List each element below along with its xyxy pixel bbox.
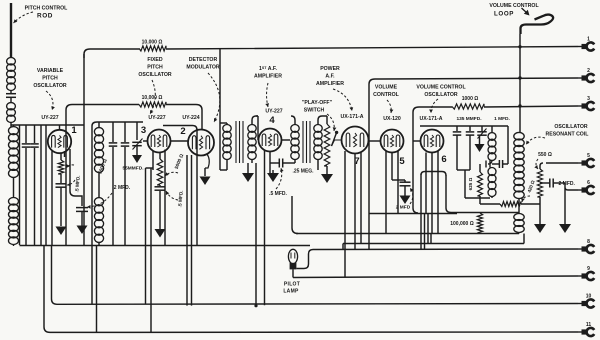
wire 420 to ground (539, 197, 541, 225)
pointer .5mfd tube4 (276, 168, 282, 189)
pointer to loop (522, 8, 528, 13)
pointer 2mfd tube5 (410, 188, 413, 204)
svg-text:4: 4 (269, 115, 275, 126)
fixed osc box top (92, 122, 143, 128)
wire terminal10 line (52, 246, 579, 305)
wire tank coil link (13, 177, 15, 198)
wire bus y243 right (343, 243, 524, 245)
svg-text:UY-227: UY-227 (265, 109, 282, 115)
variable capacitor 55mmf (132, 141, 142, 143)
svg-text:UX-171-A: UX-171-A (419, 116, 442, 122)
svg-text:UY-227: UY-227 (41, 115, 58, 121)
wire tube4 cathode down (269, 160, 271, 174)
wire 100000 box bottom (296, 233, 519, 235)
junction dot line2 (518, 76, 521, 79)
wire left feed vertical x66 (65, 110, 67, 245)
svg-text:RESONANT COIL: RESONANT COIL (546, 132, 590, 138)
resistor 420 link zigzag (500, 202, 521, 207)
wire column x41 (40, 125, 42, 245)
wire horizontal y171 (421, 172, 446, 176)
resistor 100000 ohm (477, 213, 482, 233)
oscillator tank coil upper (9, 127, 19, 135)
ground arrow below tube2 (200, 177, 211, 186)
svg-text:PITCH: PITCH (147, 65, 163, 71)
svg-text:UX-171-A: UX-171-A (340, 114, 363, 120)
wire down from tube7 region (292, 196, 298, 234)
wire plate feed line 2 (66, 105, 202, 131)
wire pilot to line8 (297, 250, 314, 269)
pointer power af (333, 89, 352, 111)
capacitor 2 MFD left (81, 205, 83, 206)
svg-text:2: 2 (180, 126, 185, 137)
capacitor grid a (22, 143, 31, 145)
wire vco top bus (420, 125, 508, 127)
wire loop feed vertical (519, 34, 521, 133)
svg-text:ROD: ROD (37, 13, 53, 20)
capacitor grid b (30, 143, 39, 145)
wire vco area (507, 126, 509, 164)
svg-text:POWER: POWER (320, 66, 340, 72)
antenna series capacitor (10, 90, 12, 93)
wire pot wiper to tube7 (332, 140, 342, 146)
tube V5 volume control (381, 130, 404, 153)
svg-text:1: 1 (71, 125, 77, 136)
svg-text:MODULATOR: MODULATOR (186, 65, 219, 71)
ground arrow right a (534, 224, 546, 233)
pointer to variable pitch oscillator tube (46, 91, 53, 110)
svg-text:AMPLIFIER: AMPLIFIER (316, 81, 344, 87)
wire grid cap column a (25, 125, 27, 143)
svg-text:1000 Ω: 1000 Ω (462, 96, 479, 102)
wire column x46 (45, 125, 47, 245)
oscillator resonant coil main (514, 132, 524, 140)
svg-text:OSCILLATOR: OSCILLATOR (138, 72, 171, 78)
svg-text:2 MFD: 2 MFD (396, 205, 411, 211)
svg-text:1 MFD.: 1 MFD. (494, 116, 510, 122)
svg-text:UY-227: UY-227 (148, 115, 165, 121)
pointer fixed pitch osc (150, 80, 155, 114)
pointer 2mfd left (87, 193, 112, 207)
svg-text:VOLUME CONTROL: VOLUME CONTROL (416, 85, 466, 91)
wire tube4 leads (264, 150, 266, 305)
wire fpo varcap column (136, 122, 138, 140)
pointer detector modulator (208, 73, 220, 122)
wire left osc top bus (11, 124, 84, 126)
svg-text:10,000 Ω: 10,000 Ω (142, 40, 163, 46)
svg-text:"PLAY-OFF": "PLAY-OFF" (302, 100, 333, 106)
wire tube6 leads (425, 153, 427, 214)
ground arrow left block (56, 227, 67, 236)
svg-text:.5 MFD.: .5 MFD. (269, 191, 287, 197)
capacitor cathode tube3 (159, 185, 161, 186)
wire resonant coil bottoms (518, 198, 520, 214)
wire tube1 plate lead (70, 149, 82, 205)
svg-text:.25 MEG.: .25 MEG. (292, 169, 314, 175)
resistor 10000 ohm (plate feed 1) (139, 46, 166, 51)
wire left feed vertical x84 (83, 54, 85, 245)
wire tube4 grid (256, 115, 258, 117)
svg-text:UX-120: UX-120 (383, 116, 401, 122)
switch blade (332, 132, 338, 147)
wire tube6 grid stub (413, 140, 421, 142)
ground arrow mid (159, 191, 161, 230)
wire line2 to terminal 2 (369, 78, 578, 249)
pointer 1st af (267, 83, 268, 107)
svg-text:PITCH: PITCH (42, 76, 58, 82)
resistor 625 ohm (478, 172, 483, 196)
pilot lamp bulb (288, 249, 297, 263)
wire output sec top to switch (326, 116, 328, 124)
resistor 420 ohm vertical (537, 169, 542, 197)
volume control loop antenna (521, 15, 554, 34)
wire top bus to terminal 1 (84, 47, 578, 59)
vco series caps (486, 160, 492, 168)
output transformer secondary (314, 124, 322, 132)
junction dot line1 (518, 45, 521, 48)
ground arrow below tube4 (267, 173, 279, 182)
wire pilot bottom tap (292, 269, 294, 277)
svg-text:55MMFD.: 55MMFD. (122, 166, 143, 172)
ground arrow below 2mfd (81, 222, 83, 227)
fixed osc coil (94, 128, 103, 136)
pointer volume control (387, 100, 391, 113)
svg-text:550 Ω: 550 Ω (538, 152, 552, 158)
capacitor 2mfd tube5 (400, 181, 411, 183)
ground arrow below varcap2 (479, 136, 481, 145)
capacitor fpo b (121, 142, 130, 144)
svg-text:3: 3 (141, 125, 146, 136)
svg-text:CONTROL: CONTROL (373, 92, 399, 98)
wire tube5 leads (385, 152, 387, 234)
interstage transformer secondary (248, 124, 256, 132)
fixed osc lower coil (94, 198, 103, 206)
capacitor fpo a (109, 142, 118, 144)
pointer 5000 t1 (66, 165, 74, 168)
capacitor .5mfd tube4 (278, 159, 280, 168)
svg-text:AMPLIFIER: AMPLIFIER (254, 74, 282, 80)
svg-text:VARIABLE: VARIABLE (37, 68, 64, 74)
junction dot line3 (518, 104, 521, 107)
wire bus y213 right (369, 213, 457, 215)
wire tube2 grid left (171, 140, 188, 142)
pointer to pitch rod (14, 12, 34, 23)
svg-text:A.F.: A.F. (325, 74, 335, 80)
wire transformer2 connections (291, 116, 327, 170)
svg-text:100,000 Ω: 100,000 Ω (450, 221, 473, 227)
pointer 5000 t3 (165, 172, 178, 176)
oscillator tank coil lower (9, 198, 19, 206)
wire fpo column 1 (91, 128, 93, 304)
pointer 550 ohm (536, 159, 538, 169)
svg-text:OSCILLATOR: OSCILLATOR (424, 92, 457, 98)
wire tube5 cathode to cap (392, 179, 405, 181)
wire tube5 grid stub (369, 140, 381, 142)
capacitor 135mmfd b (469, 126, 471, 131)
wire verticals right block (420, 174, 422, 250)
wire transformer1 top (226, 123, 228, 125)
pointer vco (431, 99, 438, 113)
svg-text:625 Ω: 625 Ω (468, 177, 473, 190)
wire terminal6 (565, 183, 578, 225)
svg-text:2 MFD.: 2 MFD. (559, 181, 576, 187)
wire tube7 leads (344, 151, 346, 277)
pointer .5mfd t1 (67, 180, 75, 185)
antenna series coil L1a (7, 58, 16, 65)
variable capacitor 135mmfd (481, 126, 483, 131)
ground arrow below transformer1 (247, 163, 249, 174)
pointer playoff switch (327, 114, 334, 131)
svg-text:OSCILLATOR: OSCILLATOR (554, 124, 587, 130)
tube V4 1st af amplifier (259, 129, 282, 152)
output transformer core (302, 121, 304, 163)
wire bus components bottom (20, 245, 311, 247)
svg-text:2 MFD.: 2 MFD. (114, 185, 131, 191)
wire fpo cap column b (124, 122, 126, 142)
wire tube3 grid stub (143, 140, 148, 142)
wire terminal8 line (313, 248, 578, 251)
svg-text:6: 6 (441, 154, 446, 165)
ground arrow right b (559, 224, 571, 233)
svg-text:LAMP: LAMP (283, 289, 299, 295)
tube V1 variable pitch oscillator (48, 130, 71, 153)
svg-text:LOOP: LOOP (494, 11, 514, 18)
wire fpo cap column a (112, 122, 114, 142)
wire B+ vertical x220 (219, 49, 221, 170)
wire coil lead to line11 (96, 246, 98, 333)
resistor 10000 ohm (plate feed 2) (139, 102, 166, 107)
wire left box edge (19, 125, 21, 245)
svg-text:10,000 Ω: 10,000 Ω (142, 95, 163, 101)
wire 100000 box top (446, 175, 519, 213)
capacitor 2mfd right (549, 179, 551, 188)
wire below cap b (34, 148, 36, 245)
ground arrow below tube5 cap (404, 186, 406, 197)
wire terminal9 line (293, 276, 578, 278)
capacitor cathode tube1 (60, 174, 62, 183)
svg-text:PITCH CONTROL: PITCH CONTROL (25, 6, 68, 12)
wire tube2 leads (186, 155, 188, 306)
svg-text:PILOT: PILOT (284, 282, 300, 288)
svg-text:135 MMFD.: 135 MMFD. (456, 116, 481, 122)
pointer 420 ohm (522, 196, 530, 202)
wire tube2 grid cap feed (163, 126, 197, 246)
potentiometer .25 meg (324, 124, 330, 166)
wire tube4 plate (282, 139, 291, 141)
antenna series coil L1b (7, 103, 16, 110)
tube V2 detector modulator (188, 130, 214, 156)
wire zigzag line (479, 196, 481, 204)
wire tube3 leads (152, 151, 154, 171)
wire grid cap column b (34, 125, 36, 143)
vco coil lower (488, 168, 496, 176)
wire transformer1 bottom (226, 159, 228, 170)
pointer resonant coil (526, 137, 545, 144)
resistor 5000 ohm tube3 (159, 153, 161, 160)
wire line3 to terminal 3 (413, 106, 578, 126)
svg-text:VOLUME: VOLUME (375, 85, 398, 91)
output transformer primary (291, 124, 299, 132)
pointer .5mfd t3 (166, 191, 178, 200)
wire terminal5 (540, 163, 578, 169)
wire filament pair mid (145, 168, 147, 304)
interstage transformer core (235, 121, 237, 163)
svg-text:OSCILLATOR: OSCILLATOR (33, 83, 66, 89)
wire terminal11 line (44, 246, 578, 333)
vco coil upper (488, 133, 496, 141)
svg-text:1ST A.F.: 1ST A.F. (259, 66, 278, 72)
tube V7 power af amplifier (342, 127, 369, 154)
resistor 1000 ohm (452, 104, 484, 109)
oscillator resonant coil lower (514, 214, 524, 221)
ground arrow below varcap (136, 146, 138, 156)
svg-text:UY-224: UY-224 (182, 115, 199, 121)
svg-text:VOLUME CONTROL: VOLUME CONTROL (489, 3, 539, 9)
svg-text:DETECTOR: DETECTOR (189, 57, 218, 63)
interstage transformer primary (223, 124, 231, 132)
svg-text:SWITCH: SWITCH (304, 108, 325, 114)
tube V6 volume control oscillator (421, 130, 444, 153)
pitch control rod antenna (10, 3, 12, 57)
svg-text:5: 5 (399, 156, 405, 167)
wire below cap a (25, 148, 27, 245)
wire tube1 top (59, 126, 61, 131)
ground arrow below pot (326, 166, 328, 175)
tube V3 fixed pitch oscillator (148, 130, 171, 153)
wire tube1 leads (51, 151, 53, 246)
resistor 5000 ohm tube1 (60, 153, 62, 160)
capacitor 135mmfd a (456, 126, 458, 131)
svg-text:FIXED: FIXED (147, 57, 163, 63)
